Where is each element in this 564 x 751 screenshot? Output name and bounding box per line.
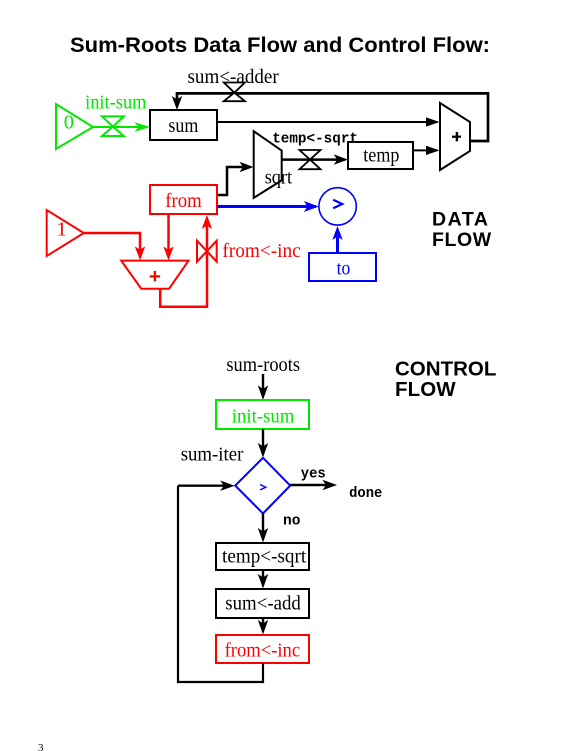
arrowhead into sqrt [240, 162, 254, 172]
svg-text:no: no [283, 513, 301, 530]
wire: top feedback from adder output to sum (thick) [177, 93, 488, 141]
svg-text:temp: temp [363, 145, 399, 167]
arrowhead blue up into comparator [332, 226, 342, 240]
box from<-inc (red) [216, 635, 309, 663]
valve sum<-adder (hourglass on top wire) [224, 83, 245, 102]
svg-text:Sum-Roots Data Flow and Contro: Sum-Roots Data Flow and Control Flow: [70, 34, 490, 57]
svg-text:sum<-add: sum<-add [225, 593, 300, 615]
wire: red adder output loop up through valve [160, 221, 207, 307]
decision diamond > (blue) [235, 458, 290, 514]
arrowhead yes branch [322, 480, 337, 490]
arrowhead into temp<-sqrt box [258, 528, 268, 543]
register sum [150, 110, 217, 140]
arrowhead into diamond top [258, 443, 268, 458]
arrowhead red into adder right [163, 246, 173, 260]
wire: down into init-sum [262, 374, 264, 396]
wire: red from 1 to adder [84, 233, 140, 256]
svg-text:to: to [337, 258, 351, 280]
arrowhead into from<-inc box [258, 620, 268, 635]
valve from<-inc (red sideways bowtie) [197, 241, 217, 262]
wire: yes branch [290, 484, 333, 486]
wire: sum output to adder upper input [217, 121, 437, 123]
wire: green init wire [93, 126, 141, 128]
wire: temp output to adder lower input [413, 149, 437, 151]
box sum<-add [216, 589, 309, 618]
wire: init-sum to diamond [262, 429, 264, 454]
arrowhead into sum<-add box [258, 574, 268, 589]
svg-text:FLOW: FLOW [432, 229, 492, 251]
svg-text:FLOW: FLOW [395, 378, 456, 401]
arrowhead red into adder left [135, 246, 145, 260]
arrowhead into temp [334, 154, 348, 164]
svg-text:sum-iter: sum-iter [181, 444, 244, 466]
arrowhead blue into comparator [304, 201, 319, 212]
comparator circle > (blue) [319, 188, 356, 225]
arrowhead red up into from register [202, 215, 212, 229]
arrowhead into init-sum box [258, 385, 268, 400]
svg-text:sqrt: sqrt [265, 166, 293, 188]
function unit increment + (red trapezoid down) [121, 261, 188, 289]
svg-text:sum<-adder: sum<-adder [188, 66, 279, 88]
svg-text:temp<-sqrt: temp<-sqrt [272, 131, 358, 148]
wire: to from<-inc [262, 618, 264, 631]
register from (red) [150, 185, 217, 214]
wire: no branch down [262, 514, 264, 540]
register temp [348, 142, 413, 169]
box temp<-sqrt [216, 543, 309, 570]
function unit adder + (trapezoid) [440, 103, 470, 170]
svg-text:done: done [349, 485, 382, 502]
svg-text:from<-inc: from<-inc [222, 240, 300, 262]
arrowhead into adder lower input [426, 146, 440, 155]
box init-sum (green) [216, 400, 309, 429]
svg-text:sum: sum [168, 115, 198, 137]
svg-text:0: 0 [64, 112, 74, 134]
svg-text:1: 1 [57, 219, 67, 241]
wire: red from register down to adder [167, 214, 170, 256]
function unit sqrt (trapezoid) [254, 131, 282, 198]
svg-text:init-sum: init-sum [232, 406, 295, 428]
wire: sqrt output to temp [282, 158, 345, 161]
arrowhead green into sum [135, 122, 151, 132]
valve temp<-sqrt (hourglass) [300, 150, 321, 169]
svg-text:yes: yes [301, 465, 326, 482]
register to (blue) [309, 253, 376, 281]
wire: to sum<-add [262, 570, 264, 585]
wire: from register to sqrt input [217, 167, 250, 195]
svg-text:3: 3 [38, 742, 44, 751]
wire: blue from register to comparator [217, 205, 316, 208]
svg-text:from: from [165, 190, 202, 212]
triangle constant 0 (green) [56, 104, 93, 149]
svg-text:from<-inc: from<-inc [225, 639, 301, 661]
svg-text:DATA: DATA [432, 209, 488, 231]
svg-text:sum-roots: sum-roots [226, 354, 300, 376]
arrowhead into sum top [172, 96, 182, 110]
svg-text:temp<-sqrt: temp<-sqrt [222, 546, 306, 568]
svg-text:init-sum: init-sum [85, 92, 146, 114]
arrowhead into diamond left [220, 481, 235, 491]
wire: blue from to box up to comparator [336, 237, 339, 253]
wire: loop re-entry arrow into diamond left [178, 485, 231, 487]
valve init-sum (green hourglass) [102, 116, 124, 136]
triangle constant 1 (red) [47, 210, 84, 256]
arrowhead into adder upper input [426, 117, 440, 126]
wire: loop back to diamond [178, 486, 263, 682]
